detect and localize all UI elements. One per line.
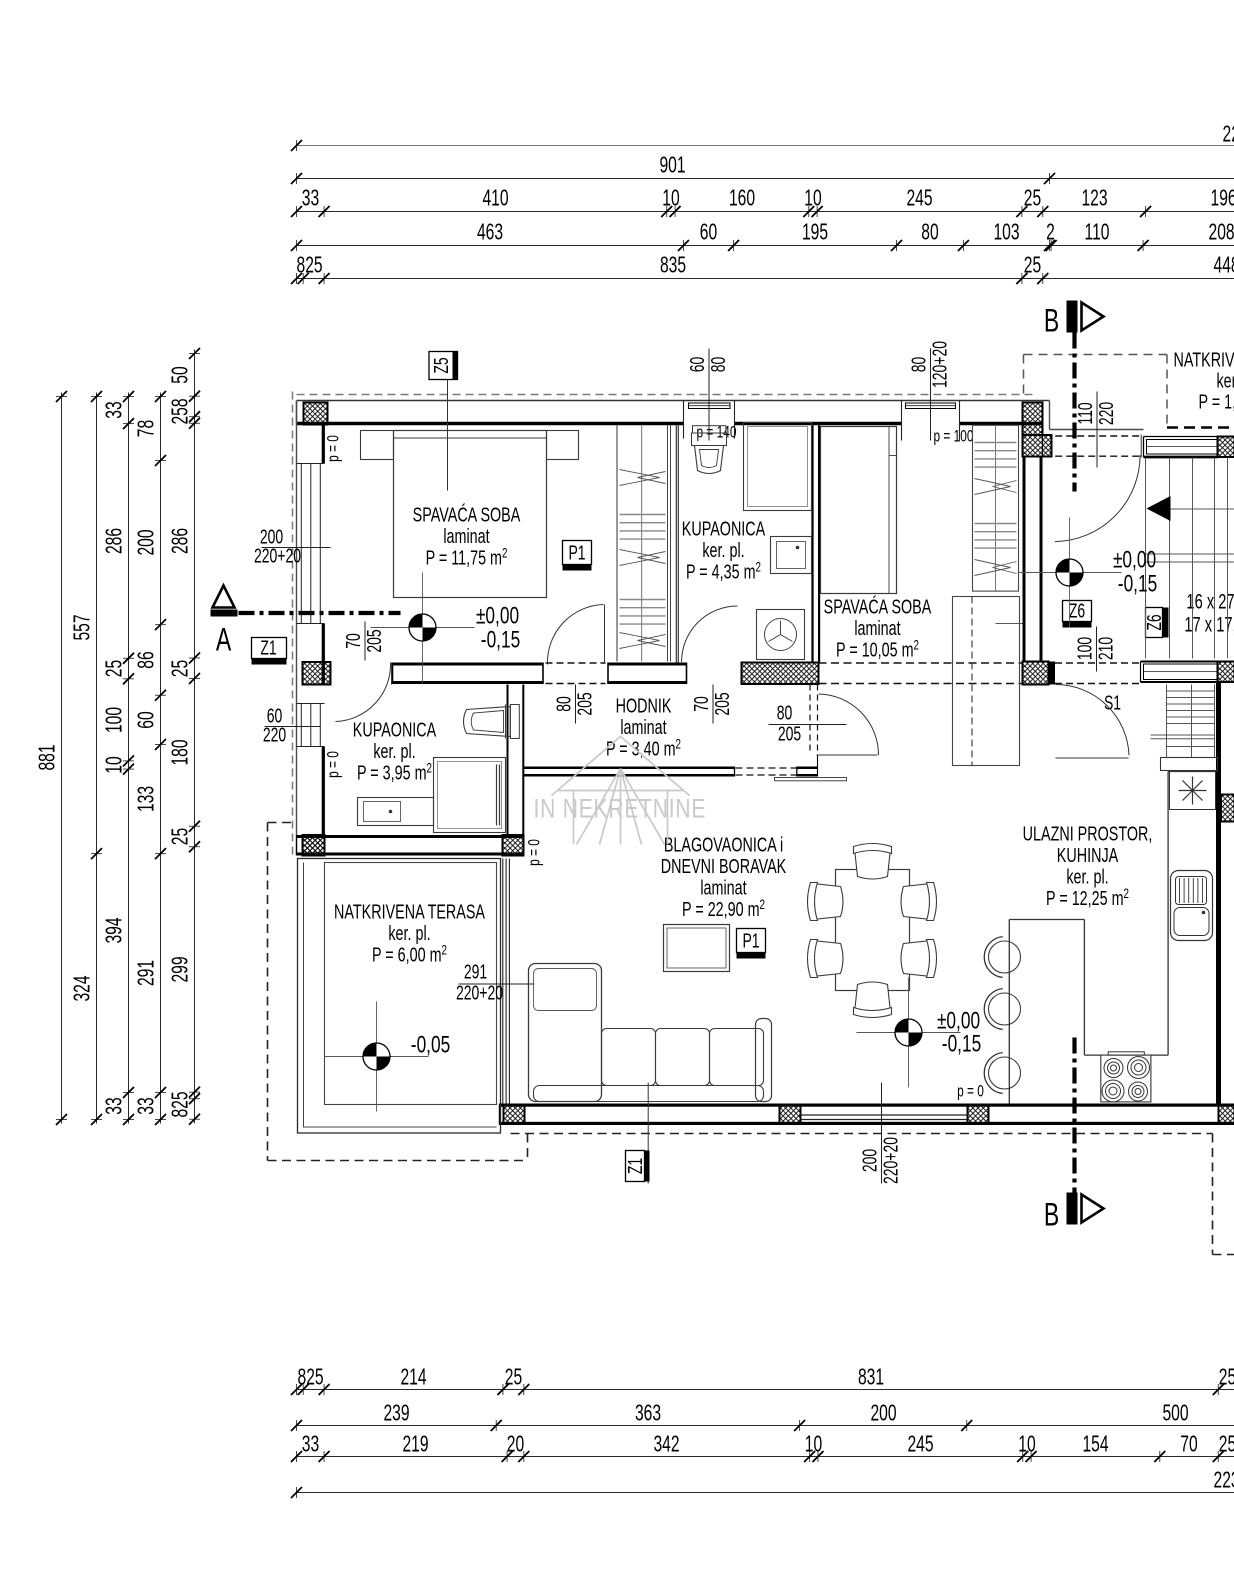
svg-text:195: 195	[802, 220, 828, 246]
svg-text:laminat: laminat	[700, 876, 746, 899]
svg-text:SPAVAĆA SOBA: SPAVAĆA SOBA	[413, 502, 521, 526]
svg-text:239: 239	[383, 1401, 409, 1427]
svg-text:25: 25	[168, 660, 194, 677]
svg-text:laminat: laminat	[443, 524, 489, 547]
svg-text:831: 831	[858, 1365, 884, 1391]
svg-text:123: 123	[1081, 186, 1107, 212]
svg-text:-0,15: -0,15	[1118, 571, 1157, 597]
svg-text:245: 245	[907, 1432, 933, 1458]
svg-text:BLAGOVAONICA i: BLAGOVAONICA i	[664, 833, 783, 856]
svg-text:NATKRIVENA: NATKRIVENA	[1174, 348, 1234, 371]
svg-text:25: 25	[1024, 253, 1041, 279]
svg-text:205: 205	[710, 692, 733, 715]
svg-text:324: 324	[70, 975, 96, 1001]
svg-text:P1: P1	[742, 929, 759, 952]
svg-text:laminat: laminat	[620, 715, 666, 738]
svg-text:25: 25	[1219, 1365, 1234, 1391]
svg-text:200: 200	[870, 1401, 896, 1427]
svg-text:10: 10	[804, 186, 821, 212]
svg-text:ker. pl.: ker. pl.	[373, 739, 415, 762]
svg-text:33: 33	[102, 1097, 128, 1114]
svg-text:KUHINJA: KUHINJA	[1057, 843, 1119, 866]
svg-text:P = 4,35 m2: P = 4,35 m2	[686, 559, 761, 583]
svg-text:835: 835	[660, 253, 686, 279]
svg-text:220: 220	[1094, 402, 1117, 425]
svg-text:196: 196	[1211, 186, 1234, 212]
svg-text:291: 291	[134, 960, 160, 986]
svg-text:25: 25	[168, 828, 194, 845]
svg-text:SPAVAĆA SOBA: SPAVAĆA SOBA	[824, 594, 932, 618]
svg-text:394: 394	[102, 917, 128, 943]
svg-text:80: 80	[777, 701, 793, 724]
svg-text:±0,00: ±0,00	[1113, 547, 1156, 573]
svg-text:10: 10	[662, 186, 679, 212]
svg-text:17 x 17,: 17 x 17,	[1184, 613, 1234, 636]
svg-text:p = 0: p = 0	[325, 751, 344, 778]
svg-text:ker. pl.: ker. pl.	[702, 538, 744, 561]
svg-text:180: 180	[168, 739, 194, 765]
svg-text:286: 286	[102, 528, 128, 554]
svg-text:P1: P1	[568, 541, 585, 564]
svg-text:223: 223	[1214, 1468, 1234, 1494]
svg-text:291: 291	[464, 960, 487, 983]
svg-text:80: 80	[706, 357, 729, 373]
svg-text:80: 80	[907, 357, 930, 373]
svg-text:25: 25	[1024, 186, 1041, 212]
svg-text:HODNIK: HODNIK	[616, 694, 672, 717]
svg-text:214: 214	[400, 1365, 426, 1391]
svg-text:205: 205	[573, 692, 596, 715]
svg-text:557: 557	[70, 614, 96, 640]
svg-text:P = 6,00 m2: P = 6,00 m2	[372, 942, 447, 966]
svg-text:B: B	[1044, 1197, 1059, 1233]
svg-text:P = 22,90 m2: P = 22,90 m2	[682, 896, 765, 920]
svg-text:16 x 27: 16 x 27	[1186, 590, 1234, 613]
svg-text:Z1: Z1	[623, 1158, 646, 1174]
svg-text:p = 0: p = 0	[526, 839, 545, 866]
svg-text:220: 220	[263, 723, 286, 746]
svg-text:10: 10	[102, 756, 128, 773]
svg-text:ker. pl.: ker. pl.	[1066, 865, 1108, 888]
svg-text:219: 219	[402, 1432, 428, 1458]
svg-text:103: 103	[993, 220, 1019, 246]
svg-text:laminat: laminat	[854, 616, 900, 639]
svg-text:50: 50	[168, 366, 194, 383]
svg-text:110: 110	[1073, 402, 1096, 424]
svg-text:33: 33	[302, 1432, 319, 1458]
svg-text:220+20: 220+20	[879, 1137, 902, 1184]
svg-text:210: 210	[1094, 637, 1117, 660]
svg-text:200: 200	[858, 1149, 881, 1172]
svg-text:220+20: 220+20	[254, 544, 301, 567]
svg-text:Z5: Z5	[429, 357, 452, 373]
svg-text:-0,05: -0,05	[411, 1032, 450, 1058]
svg-text:NATKRIVENA TERASA: NATKRIVENA TERASA	[334, 900, 485, 923]
svg-text:223: 223	[1223, 122, 1234, 148]
svg-text:KUPAONICA: KUPAONICA	[353, 718, 437, 741]
svg-text:Z1: Z1	[260, 636, 276, 659]
svg-text:KUPAONICA: KUPAONICA	[682, 517, 766, 540]
svg-text:33: 33	[102, 401, 128, 418]
svg-text:363: 363	[635, 1401, 661, 1427]
svg-text:154: 154	[1082, 1432, 1108, 1458]
svg-text:60: 60	[134, 711, 160, 728]
svg-text:20: 20	[507, 1432, 524, 1458]
svg-text:25: 25	[505, 1365, 522, 1391]
svg-text:80: 80	[921, 220, 938, 246]
svg-text:70: 70	[341, 633, 364, 649]
svg-text:60: 60	[685, 357, 708, 373]
svg-text:245: 245	[906, 186, 932, 212]
svg-text:80: 80	[552, 696, 575, 712]
svg-text:200: 200	[134, 529, 160, 555]
svg-text:IN NEKRETNINE: IN NEKRETNINE	[534, 794, 707, 824]
svg-text:110: 110	[1085, 220, 1110, 246]
svg-text:258: 258	[168, 398, 194, 424]
svg-text:100: 100	[102, 707, 128, 733]
svg-text:410: 410	[482, 186, 508, 212]
svg-text:33: 33	[134, 1097, 160, 1114]
svg-text:DNEVNI BORAVAK: DNEVNI BORAVAK	[661, 854, 787, 877]
svg-text:60: 60	[700, 220, 717, 246]
svg-text:2: 2	[1046, 220, 1055, 246]
svg-text:p = 100: p = 100	[934, 428, 974, 447]
svg-text:448: 448	[1214, 253, 1234, 279]
svg-text:-0,15: -0,15	[481, 627, 520, 653]
svg-text:825: 825	[297, 253, 323, 279]
svg-text:133: 133	[134, 786, 160, 812]
svg-text:ker. pl.: ker. pl.	[388, 921, 430, 944]
svg-text:±0,00: ±0,00	[476, 603, 519, 629]
svg-text:901: 901	[659, 153, 685, 179]
svg-text:A: A	[216, 622, 232, 658]
svg-text:ULAZNI PROSTOR,: ULAZNI PROSTOR,	[1023, 822, 1153, 845]
svg-text:825: 825	[168, 1091, 194, 1117]
svg-text:208: 208	[1209, 220, 1234, 246]
svg-text:P = 12,25 m2: P = 12,25 m2	[1046, 885, 1129, 909]
svg-text:881: 881	[35, 744, 61, 770]
svg-text:P = 10,05 m2: P = 10,05 m2	[836, 637, 919, 661]
svg-text:10: 10	[805, 1432, 822, 1458]
svg-text:825: 825	[298, 1365, 324, 1391]
svg-text:25: 25	[1219, 1432, 1234, 1458]
svg-text:P = 1,5 m2: P = 1,5 m2	[1199, 389, 1234, 413]
svg-text:B: B	[1044, 303, 1059, 339]
svg-text:P = 3,95 m2: P = 3,95 m2	[357, 760, 432, 784]
svg-text:-0,15: -0,15	[942, 1031, 981, 1057]
svg-text:33: 33	[302, 186, 319, 212]
svg-text:342: 342	[653, 1432, 679, 1458]
svg-text:78: 78	[134, 420, 160, 437]
svg-text:286: 286	[168, 528, 194, 554]
svg-text:10: 10	[1018, 1432, 1035, 1458]
svg-text:205: 205	[778, 722, 801, 745]
svg-text:100: 100	[1073, 637, 1096, 660]
svg-text:120+20: 120+20	[928, 341, 951, 388]
svg-text:P = 11,75 m2: P = 11,75 m2	[426, 545, 508, 569]
svg-text:p = 0: p = 0	[957, 1083, 984, 1102]
svg-text:160: 160	[729, 186, 755, 212]
svg-text:299: 299	[168, 956, 194, 982]
svg-text:Z6: Z6	[1069, 599, 1085, 622]
svg-text:500: 500	[1162, 1401, 1188, 1427]
svg-text:25: 25	[102, 660, 128, 677]
svg-text:463: 463	[477, 220, 503, 246]
svg-text:70: 70	[689, 696, 712, 712]
svg-text:86: 86	[134, 651, 160, 668]
svg-text:p = 0: p = 0	[325, 435, 344, 462]
svg-text:ker. pl.: ker. pl.	[1217, 369, 1234, 392]
svg-text:205: 205	[362, 629, 385, 652]
svg-text:220+20: 220+20	[456, 981, 503, 1004]
svg-text:70: 70	[1180, 1432, 1197, 1458]
svg-text:S1: S1	[1104, 691, 1121, 714]
